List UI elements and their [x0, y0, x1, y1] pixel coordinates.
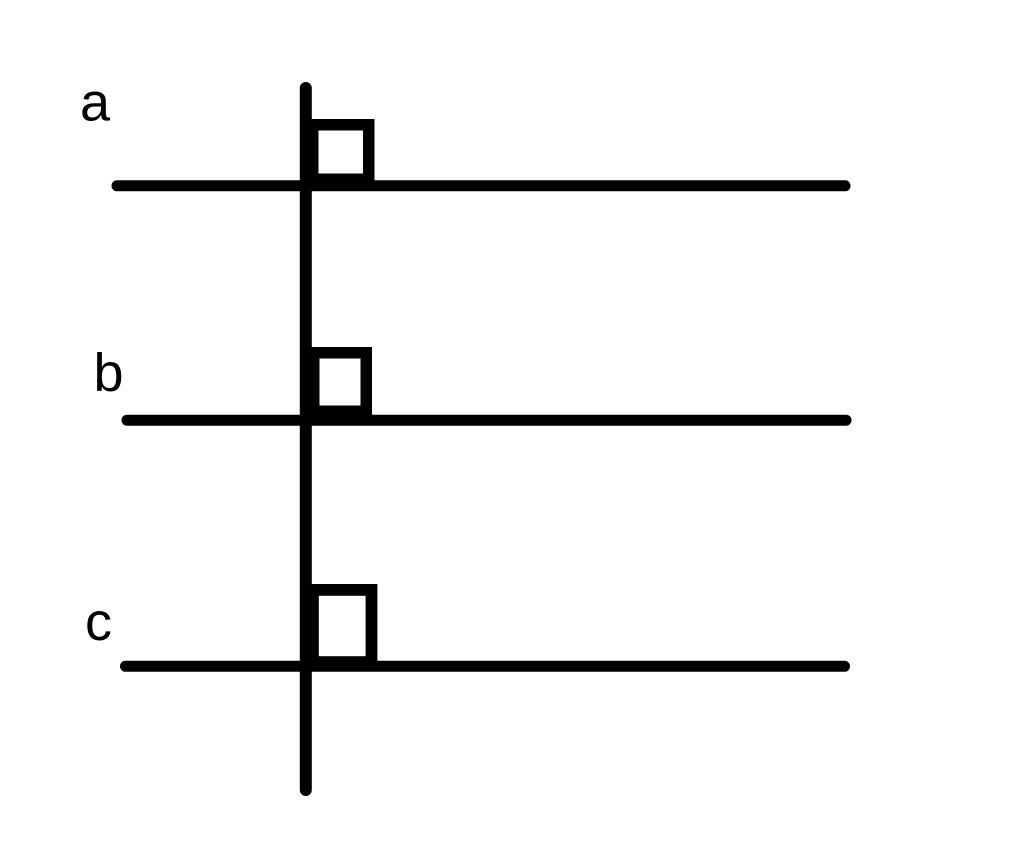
svg-text:a: a [80, 73, 111, 133]
svg-text:b: b [94, 343, 124, 403]
right-angle marker at line b [314, 353, 367, 412]
line a [117, 180, 845, 191]
right-angle marker at line c [313, 590, 372, 662]
line b [127, 415, 846, 426]
svg-text:c: c [85, 592, 112, 652]
right-angle marker at line a [313, 125, 369, 180]
line c [126, 661, 845, 672]
transversal line (vertical) [300, 88, 312, 790]
